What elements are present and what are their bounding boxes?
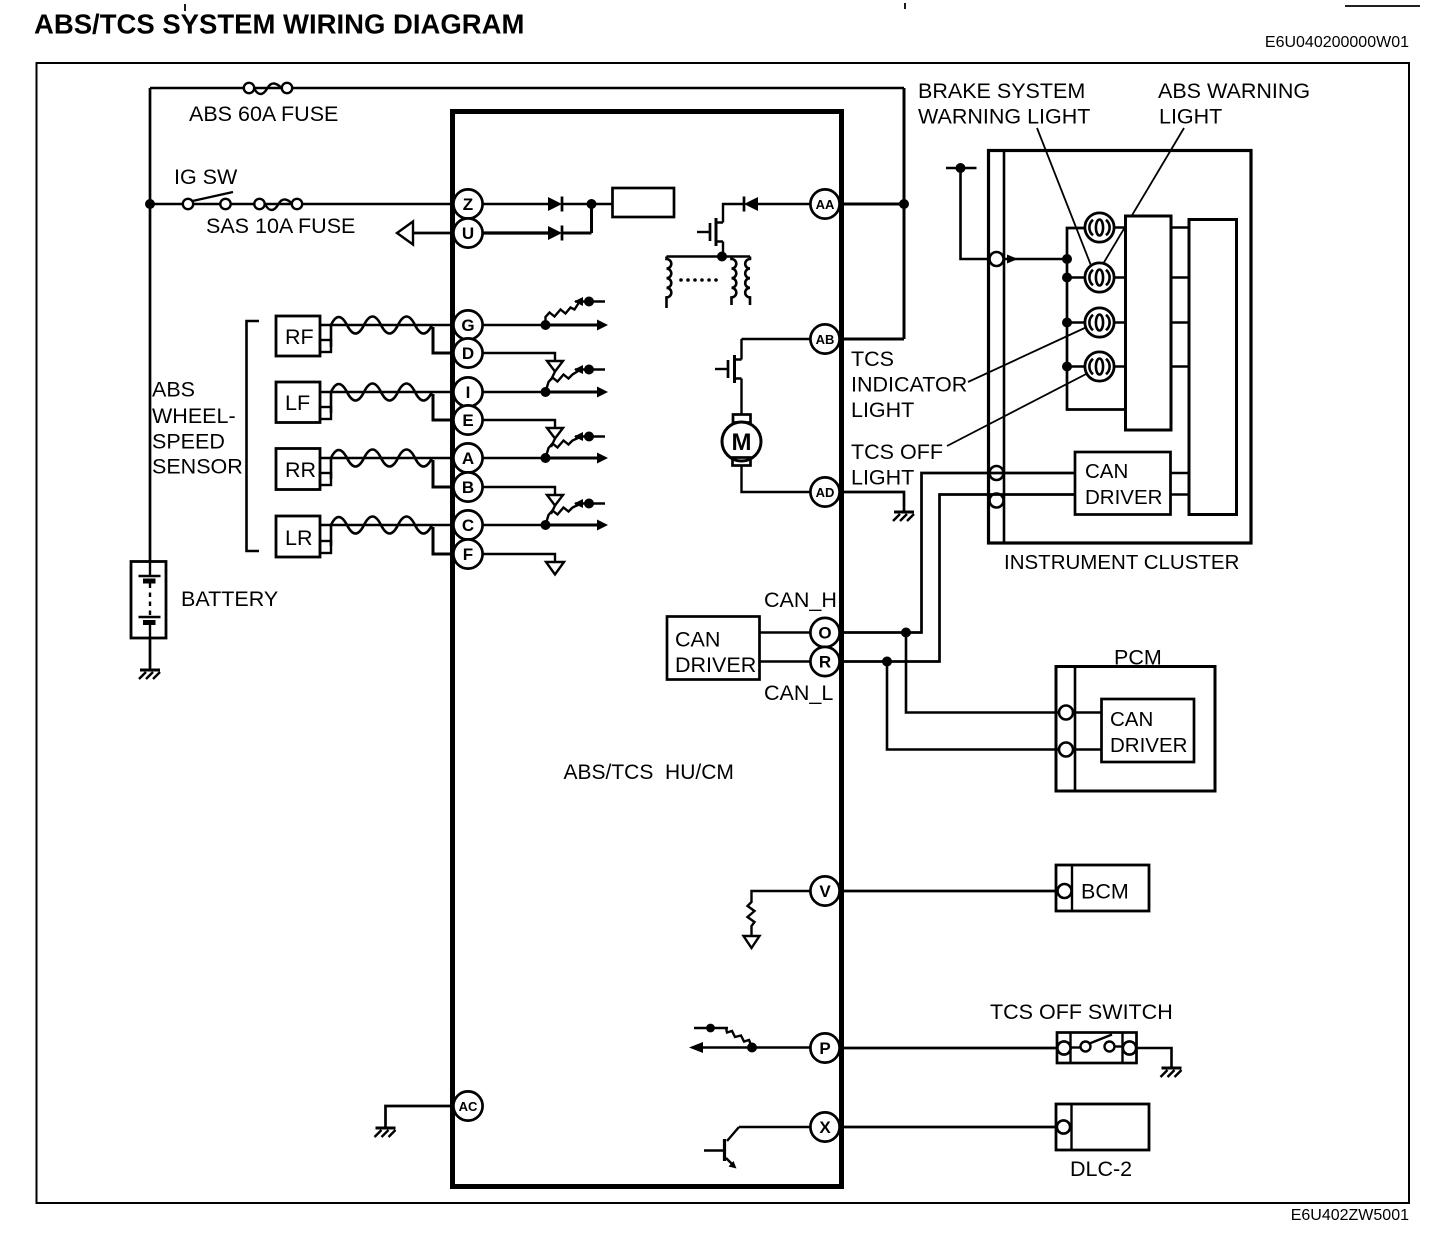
BCM box xyxy=(1056,865,1149,911)
svg-text:CAN_L: CAN_L xyxy=(764,681,833,705)
wire: battery feed line y=88 to AA riser xyxy=(150,87,904,90)
svg-text:A: A xyxy=(462,449,474,468)
zener diode on D clamp xyxy=(547,361,563,372)
wire: pin V to BCM xyxy=(840,890,1056,893)
pin B xyxy=(453,472,482,501)
resistor on B clamp xyxy=(546,505,580,526)
wire: pin AA to internal diode xyxy=(758,203,811,205)
fuse ABS 60A FUSE xyxy=(244,83,292,94)
wire: pin U to diode (thick) xyxy=(483,231,549,234)
wire: pin Z to diode xyxy=(483,203,549,205)
wire: pin P to TCS OFF switch xyxy=(840,1047,1057,1050)
solenoid coil L1 xyxy=(667,257,672,309)
svg-text:I: I xyxy=(466,383,471,402)
label TCS OFF LIGHT xyxy=(851,440,943,490)
svg-text:SAS 10A FUSE: SAS 10A FUSE xyxy=(206,214,355,238)
pin E xyxy=(453,405,482,434)
resistor network at pin V xyxy=(744,891,811,948)
wire: pin D line to clamp network xyxy=(483,353,556,361)
solenoid coil L3 xyxy=(745,257,750,306)
bracket for wheel-speed sensors xyxy=(247,321,260,551)
svg-text:ABS/TCS HU/CM: ABS/TCS HU/CM xyxy=(564,761,734,784)
solenoid coil L2 xyxy=(732,257,737,306)
resistor on D clamp xyxy=(546,371,580,393)
pin V xyxy=(810,876,839,905)
connector pin (PCM CAN_H) xyxy=(1059,706,1073,720)
node reference tap for G xyxy=(574,297,605,307)
svg-text:F: F xyxy=(463,545,473,564)
callout line TCS OFF to lamp xyxy=(947,372,1090,446)
svg-text:LIGHT: LIGHT xyxy=(1159,105,1222,129)
transistor Q2 (FET, pump motor drive) xyxy=(715,354,742,415)
svg-text:BCM: BCM xyxy=(1081,880,1129,904)
pin AA xyxy=(810,189,839,218)
svg-text:V: V xyxy=(819,882,831,901)
svg-text:BRAKE SYSTEM: BRAKE SYSTEM xyxy=(918,79,1085,103)
wires: lamp block to display block xyxy=(1171,228,1189,367)
diode on Z line xyxy=(548,197,562,212)
CAN DRIVER box (PCM) xyxy=(1102,699,1195,762)
wire: pin AC to ground xyxy=(386,1106,454,1128)
connector pin (PCM CAN_L) xyxy=(1059,743,1073,757)
wire: pin A line with junction xyxy=(483,457,546,459)
CAN DRIVER box (in HU/CM) xyxy=(667,617,760,680)
wire: diode to MOSFET drain xyxy=(723,204,744,219)
battery BATTERY xyxy=(131,562,166,639)
svg-text:X: X xyxy=(819,1118,831,1137)
diode on U line xyxy=(548,226,562,241)
wire: cluster feed to lamp bus xyxy=(1004,254,1072,264)
pin G xyxy=(453,310,482,339)
node reference tap for D clamp xyxy=(574,365,605,375)
transistor Q1 (FET, valve relay drive) xyxy=(697,218,723,257)
svg-text:DRIVER: DRIVER xyxy=(675,653,756,677)
svg-text:B: B xyxy=(462,478,474,497)
sensor LR xyxy=(276,516,331,557)
svg-text:LF: LF xyxy=(285,391,310,415)
sensor RF xyxy=(276,316,331,356)
pin A xyxy=(453,443,482,472)
zener diode on E clamp xyxy=(547,428,563,439)
wire: U diode to junction riser xyxy=(562,232,592,235)
wire: ignition line y=204 from rail to pin Z xyxy=(150,203,454,205)
wire: LF signal pair to pins I and E xyxy=(320,384,454,421)
junction at solenoid header xyxy=(717,252,727,262)
pin C xyxy=(453,510,482,539)
wire: motor to pin AD xyxy=(742,466,811,493)
svg-text:TCS OFF: TCS OFF xyxy=(851,440,943,464)
lamp TCS indicator light xyxy=(1067,308,1126,337)
svg-text:P: P xyxy=(819,1039,830,1058)
svg-text:ABS: ABS xyxy=(152,378,195,402)
svg-text:U: U xyxy=(462,224,474,243)
junction lamp 4 xyxy=(1062,362,1072,372)
callout line TCS indicator to lamp xyxy=(968,326,1089,382)
ground (battery) xyxy=(139,670,160,679)
wire: CAN driver to pin R xyxy=(760,660,811,662)
svg-text:AA: AA xyxy=(816,197,835,212)
svg-text:LR: LR xyxy=(285,526,312,550)
wire: solenoid header xyxy=(667,255,751,257)
wire: pin B line to clamp network xyxy=(483,487,556,495)
pin I xyxy=(453,377,482,406)
svg-text:BATTERY: BATTERY xyxy=(181,587,278,611)
svg-text:TCS: TCS xyxy=(851,347,894,371)
wire: pin E line to clamp network xyxy=(483,420,556,428)
svg-text:D: D xyxy=(462,344,474,363)
connector pin (cluster CAN_L) xyxy=(990,494,1004,508)
fuse SAS 10A FUSE xyxy=(254,199,302,210)
resistor on E clamp xyxy=(546,438,580,459)
svg-text:C: C xyxy=(462,516,474,535)
zener diode on B clamp xyxy=(547,495,563,506)
svg-text:SPEED: SPEED xyxy=(152,430,225,454)
reference arrow on F line xyxy=(546,562,564,575)
signal arrow on C line xyxy=(541,520,609,531)
ground (AC) xyxy=(375,1128,396,1137)
svg-text:WHEEL-: WHEEL- xyxy=(152,404,236,428)
svg-text:DRIVER: DRIVER xyxy=(1085,486,1162,509)
svg-text:DRIVER: DRIVER xyxy=(1110,734,1187,757)
wire: pin AA to fuse riser xyxy=(840,203,904,206)
wire: CAN_H branch to PCM xyxy=(906,633,1059,713)
scan artifact line top right xyxy=(1345,5,1420,7)
wire: pin X to DLC-2 xyxy=(840,1126,1056,1129)
wires: cluster CAN driver to display block xyxy=(1171,473,1190,495)
wire: pin C line with junction xyxy=(483,524,546,526)
svg-text:G: G xyxy=(461,316,474,335)
connector pin (cluster feed) xyxy=(990,252,1004,266)
svg-text:CAN: CAN xyxy=(675,628,720,652)
pin X xyxy=(810,1112,839,1141)
svg-text:PCM: PCM xyxy=(1114,646,1162,670)
pin F xyxy=(453,539,482,568)
cluster lamp driver block xyxy=(1126,216,1172,430)
svg-text:RR: RR xyxy=(285,458,316,482)
cluster feed tap with junction xyxy=(946,163,990,259)
svg-text:ABS WARNING: ABS WARNING xyxy=(1158,79,1310,103)
callout line brake warning to lamp xyxy=(1037,128,1092,268)
signal arrow on A line xyxy=(541,453,609,464)
svg-text:E: E xyxy=(462,411,473,430)
pin P xyxy=(810,1033,839,1062)
motor M (ABS pump) xyxy=(722,415,761,466)
callout line ABS warning to lamp xyxy=(1103,128,1184,264)
pin AC xyxy=(453,1091,482,1120)
PCM box xyxy=(1056,667,1215,792)
wire: riser from fuse line to AB xyxy=(903,88,906,339)
sensor RR xyxy=(276,449,331,490)
cluster display block xyxy=(1189,220,1237,515)
label BRAKE SYSTEM WARNING LIGHT xyxy=(918,79,1090,129)
svg-text:ABS 60A FUSE: ABS 60A FUSE xyxy=(189,102,338,126)
ground (TCS OFF switch) xyxy=(1161,1068,1182,1077)
lamp ABS warning light xyxy=(1067,263,1126,292)
svg-text:ABS/TCS SYSTEM WIRING DIAGRAM: ABS/TCS SYSTEM WIRING DIAGRAM xyxy=(34,9,524,40)
ground (AD) xyxy=(893,512,914,521)
solenoid core (dotted) xyxy=(679,278,718,282)
pin D xyxy=(453,338,482,367)
wire: CAN_L branch to PCM xyxy=(887,662,1059,750)
signal arrow on G line xyxy=(541,320,609,331)
svg-text:AC: AC xyxy=(459,1099,478,1114)
label ABS WARNING LIGHT xyxy=(1158,79,1310,129)
pin O xyxy=(810,618,839,647)
pin AB xyxy=(810,324,839,353)
svg-text:CAN_H: CAN_H xyxy=(764,588,837,612)
wire: switch to ground xyxy=(1137,1048,1172,1068)
lamp bus in cluster xyxy=(1067,228,1126,410)
wire: diode to regulator box with junction xyxy=(562,203,613,205)
svg-text:INSTRUMENT CLUSTER: INSTRUMENT CLUSTER xyxy=(1004,551,1239,574)
svg-text:SENSOR: SENSOR xyxy=(152,455,243,479)
cluster connector strip xyxy=(1003,151,1006,544)
junction on rail at ignition line xyxy=(145,199,155,209)
instrument cluster box xyxy=(989,151,1252,544)
svg-text:CAN: CAN xyxy=(1110,708,1153,731)
node reference tap for E clamp xyxy=(574,432,605,442)
switch IG SW xyxy=(183,192,233,209)
junction CAN_H branch xyxy=(901,628,911,638)
CAN DRIVER box (cluster) xyxy=(1075,452,1171,515)
transistor Q3 at pin X xyxy=(704,1127,811,1169)
wire: junction down to U line xyxy=(590,204,593,233)
junction lamp 3 xyxy=(1062,318,1072,328)
junction lamp 2 xyxy=(1062,273,1072,283)
lamp TCS OFF light xyxy=(1067,352,1126,381)
wire: pin AD to ground xyxy=(840,492,904,512)
svg-text:INDICATOR: INDICATOR xyxy=(851,373,967,397)
svg-text:CAN: CAN xyxy=(1085,460,1128,483)
signal arrow on I line xyxy=(541,387,609,398)
pin U xyxy=(453,218,482,247)
lamp brake system warning light xyxy=(1085,213,1126,242)
svg-text:DLC-2: DLC-2 xyxy=(1070,1157,1132,1181)
svg-text:AD: AD xyxy=(816,485,835,500)
svg-text:E6U402ZW5001: E6U402ZW5001 xyxy=(1291,1207,1409,1224)
svg-text:AB: AB xyxy=(816,332,835,347)
wire: RF signal pair to pins G and D xyxy=(320,317,454,354)
wire: CAN driver to pin O xyxy=(760,631,811,633)
node: output arrow left of pin U xyxy=(397,222,454,245)
svg-text:LIGHT: LIGHT xyxy=(851,466,914,490)
wire: riser to pin AB xyxy=(840,338,904,341)
wire: battery to ground xyxy=(149,638,152,670)
resistor pull-up on G input xyxy=(546,303,580,326)
svg-text:M: M xyxy=(732,429,752,456)
svg-text:R: R xyxy=(819,653,831,672)
diode at AA (pointing left) xyxy=(744,197,758,212)
PCM connector strip xyxy=(1074,667,1077,792)
pin R xyxy=(810,647,839,676)
wire: pin R (CAN_L) to cluster xyxy=(840,495,1075,662)
junction CAN_L branch xyxy=(882,657,892,667)
wire: LR signal pair to pins C and F xyxy=(320,517,454,555)
sensor LF xyxy=(276,382,331,423)
connector pin (cluster CAN_H) xyxy=(990,466,1004,480)
label ABS WHEEL-SPEED SENSOR xyxy=(152,378,243,479)
svg-text:Z: Z xyxy=(463,195,473,214)
pull-up network at pin P xyxy=(689,1024,811,1053)
TCS OFF SWITCH assembly xyxy=(1057,1033,1137,1064)
wire: pin AB to pump transistor xyxy=(742,339,811,354)
wire: pin I line with junction xyxy=(483,391,546,393)
wire: pin O (CAN_H) to cluster xyxy=(840,473,1075,633)
wire: pin F line xyxy=(483,554,556,562)
node reference tap for B clamp xyxy=(574,499,605,509)
wire: pin G line with junction xyxy=(483,324,546,326)
wires: PCM connectors to CAN driver xyxy=(1073,713,1102,750)
junction AA/fuse riser xyxy=(899,199,909,209)
svg-text:TCS OFF SWITCH: TCS OFF SWITCH xyxy=(990,1000,1173,1024)
wire: left power rail from fuse line down to battery xyxy=(149,88,152,561)
wire: RR signal pair to pins A and B xyxy=(320,450,454,488)
pin AD xyxy=(810,477,839,506)
ABS/TCS HU/CM main control unit box xyxy=(453,112,842,1187)
junction Z/U merge xyxy=(587,199,597,209)
svg-text:O: O xyxy=(818,624,831,643)
svg-text:IG SW: IG SW xyxy=(174,165,238,189)
label TCS INDICATOR LIGHT xyxy=(851,347,967,422)
svg-text:E6U040200000W01: E6U040200000W01 xyxy=(1265,34,1409,51)
pin Z xyxy=(453,189,482,218)
svg-text:WARNING LIGHT: WARNING LIGHT xyxy=(918,105,1090,129)
svg-text:RF: RF xyxy=(285,325,314,349)
regulator box (unlabeled) xyxy=(613,188,675,217)
DLC-2 box xyxy=(1056,1104,1149,1150)
svg-text:LIGHT: LIGHT xyxy=(851,398,914,422)
